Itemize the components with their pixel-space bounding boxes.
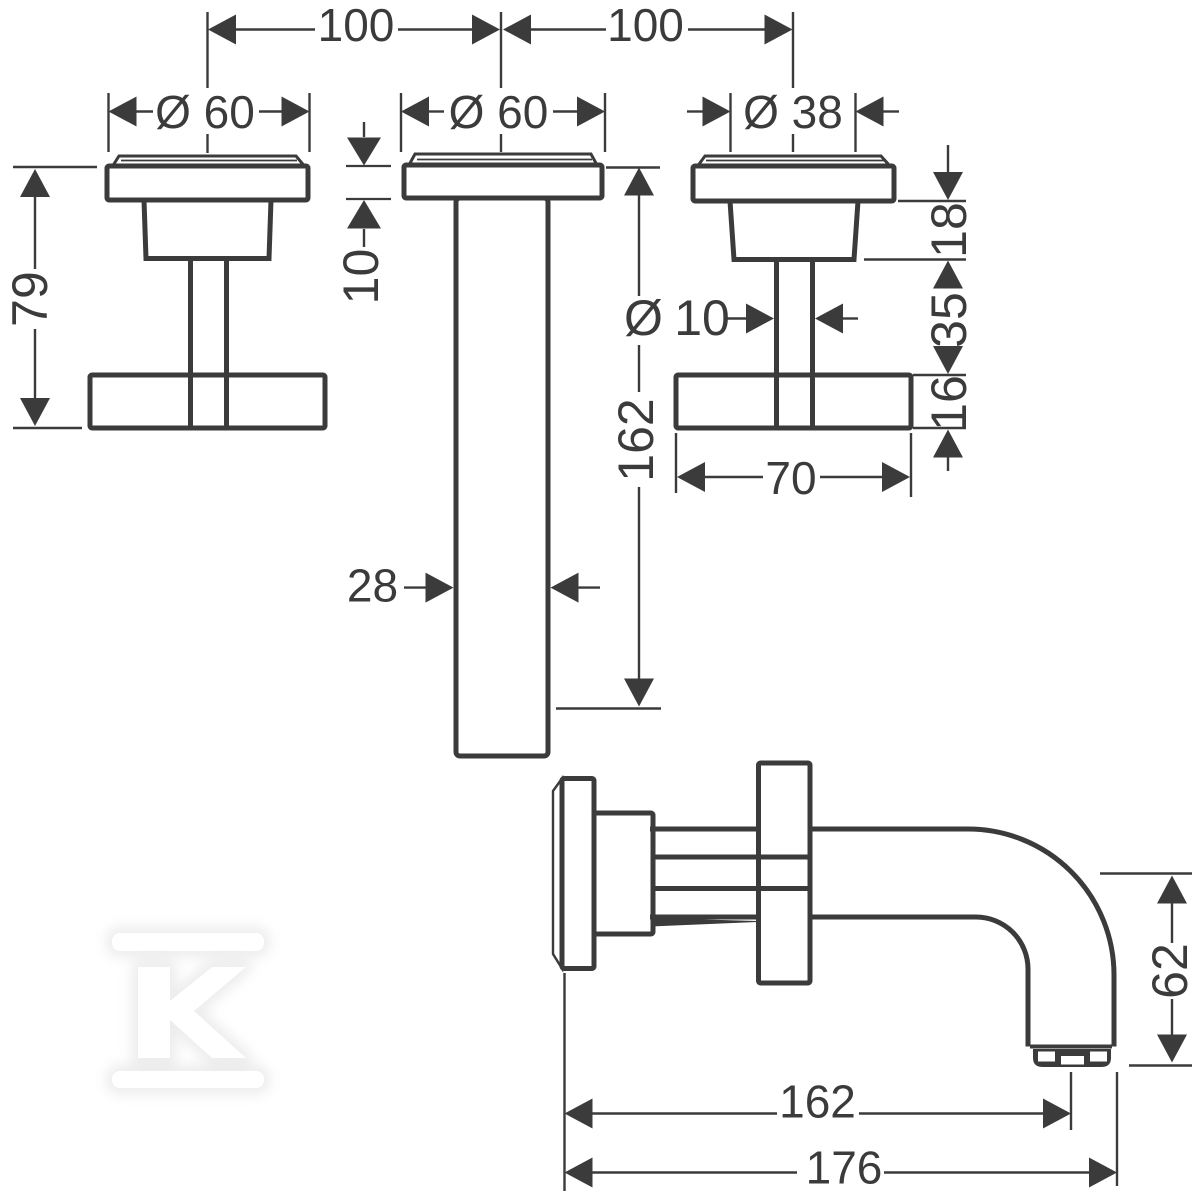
dim 162 middle arrows	[624, 168, 654, 707]
side view pipe top line	[650, 827, 756, 832]
dim D60 left arrows	[109, 97, 310, 127]
aerator window left	[1038, 1052, 1055, 1062]
left handle escutcheon	[107, 166, 308, 200]
dim 10 middle line	[363, 122, 365, 247]
side view flange bevel	[553, 779, 562, 969]
dim 62 ext lines	[1100, 874, 1192, 1066]
svg-text:Ø: Ø	[624, 290, 663, 346]
dim 162 bottom line	[593, 1112, 1044, 1114]
dim D60 middle line	[429, 110, 577, 112]
aerator window right	[1090, 1052, 1107, 1062]
spout pipe front view	[456, 198, 548, 756]
right handle adapter	[730, 201, 858, 260]
svg-text:100: 100	[607, 0, 684, 51]
dim 79 line	[34, 197, 36, 398]
svg-text:10: 10	[333, 249, 389, 305]
dim D60 left ext lines	[109, 93, 310, 152]
dim 62 arrows	[1157, 876, 1187, 1063]
svg-text:79: 79	[2, 271, 58, 327]
middle escutcheon cap	[409, 154, 597, 165]
dim 100 left line	[236, 28, 472, 30]
dim 70 ext lines	[676, 433, 911, 497]
svg-text:10: 10	[674, 290, 730, 346]
left handle adapter	[144, 200, 271, 259]
side view handle bar	[759, 763, 811, 983]
right handle cap	[698, 156, 890, 166]
dim 18 arrow	[933, 172, 963, 200]
svg-text:18: 18	[921, 202, 977, 258]
side view flange cone	[594, 813, 653, 934]
watermark K logo glow	[112, 933, 264, 1088]
dim D60 left line	[137, 110, 282, 112]
dim 176 line	[593, 1171, 1090, 1173]
spout end line	[1030, 1045, 1112, 1049]
dim 162 middle line	[638, 196, 640, 680]
svg-text:162: 162	[608, 398, 664, 481]
left handle bar	[90, 375, 325, 428]
right handle cap inner line	[706, 160, 884, 162]
right handle bar	[676, 375, 911, 428]
svg-text:16: 16	[921, 375, 977, 431]
aerator outer	[1033, 1049, 1111, 1067]
dim D10 line	[726, 317, 858, 319]
dim 18-35-16 ext lines	[864, 201, 966, 428]
dim 176 arrows	[565, 1158, 1118, 1188]
middle escutcheon	[404, 165, 602, 198]
svg-text:Ø 60: Ø 60	[155, 86, 255, 138]
side view flange plate	[562, 779, 594, 969]
spout outer curve	[810, 829, 1114, 1047]
watermark K logo white	[112, 933, 264, 1088]
svg-text:Ø 38: Ø 38	[743, 86, 843, 138]
dim 28 arrows	[426, 573, 579, 603]
dim 10 middle arrows	[347, 138, 381, 229]
dim D10 arrows	[746, 304, 843, 334]
dim 28 line	[404, 586, 600, 588]
dim 35 arrows	[933, 261, 963, 375]
dim 16 line	[947, 458, 949, 472]
side view valve line upper	[653, 855, 810, 860]
svg-text:162: 162	[779, 1076, 856, 1128]
dim 70 arrows	[677, 462, 910, 492]
dim 100 right line	[531, 28, 765, 30]
right handle escutcheon	[693, 166, 894, 201]
dim 10 middle ext lines	[346, 166, 391, 199]
aerator window middle	[1061, 1056, 1084, 1065]
dim 79 arrows	[20, 169, 50, 426]
dim 18 line	[947, 145, 949, 172]
dim D38 ext lines	[731, 93, 856, 152]
svg-text:100: 100	[318, 0, 395, 51]
dim 100 arrows	[208, 15, 793, 45]
dim 79 ext lines	[13, 167, 97, 428]
dim 162 middle ext lines	[556, 168, 661, 709]
dim 100-100 extension lines	[208, 12, 794, 153]
left handle cap inner line	[121, 160, 297, 162]
left handle stem	[188, 259, 193, 427]
dim 176 ext line	[1116, 1072, 1118, 1186]
middle cap inner line	[417, 159, 592, 161]
svg-text:28: 28	[347, 560, 398, 612]
dim D38 arrows	[703, 97, 884, 127]
svg-text:176: 176	[806, 1142, 883, 1194]
spout inner curve	[810, 917, 1028, 1047]
dim 62 line	[1171, 904, 1173, 1035]
right handle stem	[774, 260, 779, 427]
dim D60 middle ext lines	[401, 93, 605, 152]
dim 70 line	[705, 476, 882, 478]
svg-text:35: 35	[921, 292, 977, 348]
dim 162 bottom ext lines	[565, 973, 1072, 1191]
dim 162 bottom arrows	[565, 1099, 1072, 1129]
left handle cap	[113, 156, 304, 166]
side view valve line lower	[653, 886, 810, 891]
dim D38 line	[687, 110, 899, 112]
dim D60 middle arrows	[401, 97, 605, 127]
side view taper wedge	[651, 919, 757, 927]
svg-text:Ø 60: Ø 60	[449, 86, 549, 138]
side view pipe bottom line	[650, 915, 756, 920]
dim 16 arrow	[933, 430, 963, 458]
svg-text:70: 70	[765, 452, 816, 504]
svg-text:62: 62	[1142, 943, 1198, 999]
